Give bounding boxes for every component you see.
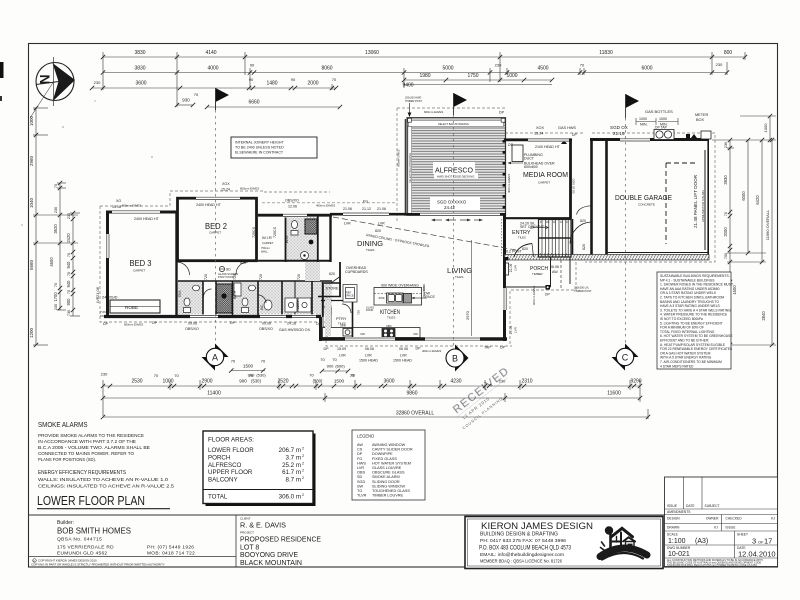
svg-text:XOX: XOX (222, 182, 230, 186)
svg-text:2310: 2310 (521, 379, 532, 385)
svg-text:BOB SMITH HOMES: BOB SMITH HOMES (57, 527, 131, 536)
svg-text:DOUBLE GARAGE: DOUBLE GARAGE (615, 193, 672, 202)
svg-text:400mm EAVES: 400mm EAVES (422, 349, 441, 353)
svg-text:STORE: STORE (326, 287, 339, 291)
svg-text:PROVIDE SMOKE ALARMS TO THE RE: PROVIDE SMOKE ALARMS TO THE RESIDENCE (38, 433, 144, 439)
svg-text:KJ: KJ (771, 517, 775, 521)
svg-text:R. & E. DAVIS: R. & E. DAVIS (240, 523, 286, 530)
svg-text:27.06: 27.06 (509, 326, 513, 335)
svg-text:OBS: OBS (357, 471, 365, 475)
svg-text:CARPET: CARPET (133, 269, 145, 273)
svg-text:09.06: 09.06 (262, 322, 271, 326)
svg-text:1750: 1750 (467, 73, 478, 79)
svg-text:P.O. BOX 483 COOLUM BEACH QLD: P.O. BOX 483 COOLUM BEACH QLD 4573 (479, 546, 572, 552)
svg-text:25.2 m: 25.2 m (282, 462, 301, 469)
svg-text:OBS/XO: OBS/XO (285, 199, 299, 203)
svg-text:900: 900 (327, 364, 334, 369)
svg-text:GAS BOTTLES: GAS BOTTLES (645, 109, 673, 114)
svg-text:11600: 11600 (607, 391, 621, 397)
svg-text:70: 70 (332, 77, 337, 82)
svg-text:4000: 4000 (207, 66, 218, 72)
svg-text:UBO: UBO (386, 324, 392, 328)
svg-text:600mm EAVES: 600mm EAVES (124, 323, 143, 327)
svg-text:1500 HEAD: 1500 HEAD (393, 359, 412, 363)
svg-text:TIMBER POST: TIMBER POST (574, 289, 592, 293)
svg-text:CHECKED: CHECKED (726, 517, 743, 521)
svg-text:6000: 6000 (641, 66, 652, 72)
svg-text:8.7 m: 8.7 m (286, 477, 301, 484)
svg-text:EMAIL: info@thebuildingdesigne: EMAIL: info@thebuildingdesigner.com (480, 552, 564, 558)
svg-text:15.18: 15.18 (112, 205, 121, 209)
svg-text:FIXED GLASS: FIXED GLASS (372, 457, 397, 461)
svg-text:DP: DP (324, 347, 330, 351)
svg-text:APML/MOTOR 0.8L/M3: APML/MOTOR 0.8L/M3 (701, 190, 705, 222)
svg-text:HOT WATER SYSTEM: HOT WATER SYSTEM (372, 461, 411, 465)
svg-text:SGD OXXXXO: SGD OXXXXO (437, 200, 467, 205)
svg-text:820: 820 (375, 229, 381, 233)
svg-text:2420: 2420 (66, 233, 71, 243)
svg-text:B: B (452, 354, 458, 364)
svg-text:4600: 4600 (49, 257, 54, 267)
svg-text:21.48 PANEL LIFT DOOR: 21.48 PANEL LIFT DOOR (693, 174, 698, 228)
svg-text:FG: FG (357, 457, 362, 461)
svg-text:17: 17 (764, 537, 772, 546)
svg-text:1500 HEAD: 1500 HEAD (359, 359, 378, 363)
svg-text:2100 HEAD HT: 2100 HEAD HT (535, 145, 561, 149)
svg-text:230: 230 (499, 379, 506, 384)
svg-text:600mm EAVES: 600mm EAVES (532, 286, 536, 305)
svg-text:LVR: LVR (365, 354, 372, 358)
svg-text:PH: (07) 5449 1926: PH: (07) 5449 1926 (147, 545, 194, 551)
svg-text:ROBE: ROBE (125, 305, 138, 310)
svg-text:DP: DP (416, 347, 422, 351)
svg-text:15.09: 15.09 (337, 347, 346, 351)
svg-text:INTERNAL JOINERY HEIGHT: INTERNAL JOINERY HEIGHT (235, 141, 284, 145)
svg-text:11830: 11830 (599, 50, 613, 56)
svg-text:SD: SD (226, 268, 231, 272)
svg-text:CONCRETE: CONCRETE (638, 203, 655, 207)
svg-text:70: 70 (67, 272, 71, 276)
svg-text:CLIENT: CLIENT (240, 517, 251, 521)
svg-text:5000: 5000 (442, 66, 453, 72)
svg-text:70: 70 (580, 63, 585, 68)
svg-text:DP: DP (545, 293, 550, 297)
svg-text:DP: DP (499, 111, 505, 115)
svg-text:400mm EAVES: 400mm EAVES (316, 204, 335, 208)
svg-text:(530): (530) (256, 373, 266, 378)
svg-text:W.I.R: W.I.R (262, 235, 272, 240)
svg-text:SW: SW (357, 484, 364, 488)
svg-text:2400 HEAD HT: 2400 HEAD HT (196, 203, 222, 207)
svg-text:12.06: 12.06 (288, 205, 297, 209)
svg-text:820: 820 (240, 261, 246, 265)
svg-text:CAVITY SLIDER DOOR: CAVITY SLIDER DOOR (372, 448, 413, 452)
svg-text:DUCT: DUCT (524, 157, 535, 161)
svg-text:TO BE 2400 UNLESS NOTED: TO BE 2400 UNLESS NOTED (235, 146, 284, 150)
svg-text:1500: 1500 (334, 379, 345, 384)
svg-text:DP: DP (230, 321, 236, 325)
svg-text:LVR: LVR (514, 264, 518, 270)
svg-text:2400 HEAD HT: 2400 HEAD HT (134, 217, 160, 221)
svg-text:2960: 2960 (29, 155, 34, 166)
svg-text:720: 720 (297, 274, 301, 280)
svg-text:SINK: SINK (379, 296, 385, 300)
svg-text:930: 930 (182, 98, 190, 103)
svg-text:3600: 3600 (383, 379, 394, 385)
svg-text:230: 230 (67, 213, 71, 219)
svg-text:730: 730 (67, 310, 71, 316)
svg-text:ELSEWHERE IN CONTRACT: ELSEWHERE IN CONTRACT (235, 151, 284, 155)
svg-text:ENERGY EFFICIENCY REQUIREMENTS: ENERGY EFFICIENCY REQUIREMENTS (38, 470, 127, 476)
svg-text:70: 70 (194, 92, 199, 97)
svg-text:TOTAL: TOTAL (208, 494, 228, 501)
svg-text:AMENDMENTS: AMENDMENTS (667, 510, 691, 514)
svg-text:3: 3 (752, 537, 756, 546)
svg-text:1040: 1040 (29, 197, 34, 208)
svg-text:600mm EAVES: 600mm EAVES (398, 149, 401, 167)
svg-text:TIMBER: TIMBER (532, 272, 543, 276)
svg-text:LOWER FLOOR PLAN: LOWER FLOOR PLAN (37, 494, 145, 508)
svg-text:21.12: 21.12 (362, 207, 371, 211)
svg-text:DWG NUMBER: DWG NUMBER (667, 546, 691, 550)
svg-text:SHEET: SHEET (737, 533, 748, 537)
svg-text:TAP: TAP (484, 346, 491, 350)
svg-text:3620: 3620 (53, 224, 58, 234)
svg-text:900: 900 (248, 373, 255, 378)
svg-text:TIMBER POST: TIMBER POST (405, 100, 422, 103)
svg-text:820: 820 (580, 219, 586, 223)
svg-text:70: 70 (724, 212, 728, 216)
svg-text:GAS HWS: GAS HWS (558, 126, 576, 130)
svg-text:LVR: LVR (339, 354, 346, 358)
svg-text:6660: 6660 (248, 100, 259, 106)
svg-text:DINING: DINING (357, 239, 383, 248)
svg-text:70: 70 (231, 359, 236, 364)
svg-text:ISSUE: ISSUE (667, 504, 678, 508)
svg-text:FG: FG (363, 200, 368, 204)
svg-text:SCALE: SCALE (667, 533, 679, 537)
svg-text:CEILINGS: INSULATED TO ACHEVE: CEILINGS: INSULATED TO ACHEVE AN R-VALUE… (38, 484, 174, 490)
svg-text:(A3): (A3) (695, 538, 708, 545)
svg-text:PIVOT DOOR: PIVOT DOOR (218, 275, 234, 279)
svg-text:BLACK MOUNTAIN: BLACK MOUNTAIN (240, 560, 302, 567)
svg-text:2: 2 (302, 461, 304, 465)
svg-text:LOT 8: LOT 8 (240, 545, 259, 552)
svg-text:3.7 m: 3.7 m (286, 454, 301, 461)
svg-text:AWNING WINDOW: AWNING WINDOW (372, 443, 406, 447)
svg-text:TILES: TILES (387, 316, 395, 320)
svg-text:DOWNPIPE: DOWNPIPE (372, 452, 393, 456)
svg-text:230: 230 (54, 207, 58, 213)
svg-text:700: 700 (724, 253, 728, 259)
svg-text:SELECT BALUSTRADING: SELECT BALUSTRADING (409, 153, 412, 183)
svg-text:KIERON JAMES DESIGN: KIERON JAMES DESIGN (481, 521, 593, 531)
svg-text:3600: 3600 (135, 81, 146, 87)
svg-text:1000: 1000 (659, 117, 667, 121)
svg-text:PLANS FOR POSITIONS (SD).: PLANS FOR POSITIONS (SD). (38, 457, 96, 463)
svg-text:06.06: 06.06 (550, 265, 559, 269)
svg-text:XOX: XOX (536, 126, 544, 130)
svg-text:LVR: LVR (400, 354, 407, 358)
svg-text:GAS HWS: GAS HWS (279, 328, 297, 332)
svg-text:90: 90 (291, 77, 296, 82)
svg-text:750mm: 750mm (261, 246, 270, 250)
svg-text:SMOKE ALARM: SMOKE ALARM (372, 475, 400, 479)
svg-text:230: 230 (94, 80, 101, 85)
svg-text:LEGEND: LEGEND (357, 434, 374, 439)
svg-text:900 WIDE OVERHANG: 900 WIDE OVERHANG (381, 283, 419, 287)
svg-text:1000: 1000 (506, 73, 517, 79)
svg-text:SGD OX: SGD OX (610, 125, 628, 130)
svg-text:720: 720 (357, 310, 361, 315)
svg-text:06 06: 06 06 (399, 347, 408, 351)
svg-text:DINK: DINK (422, 284, 426, 291)
svg-text:SINK: SINK (340, 324, 346, 328)
svg-text:LVR: LVR (357, 466, 364, 470)
svg-text:TAP: TAP (100, 314, 106, 318)
svg-text:24.18: 24.18 (287, 322, 296, 326)
svg-text:(530): (530) (251, 379, 261, 384)
svg-text:11400: 11400 (207, 391, 221, 397)
svg-text:6000: 6000 (741, 191, 746, 201)
svg-text:21.06: 21.06 (509, 264, 513, 273)
svg-text:SMOKE ALARMS: SMOKE ALARMS (38, 420, 88, 429)
svg-text:BUILDING DESIGN & DRAFTING: BUILDING DESIGN & DRAFTING (480, 532, 558, 538)
svg-text:70: 70 (54, 184, 58, 188)
svg-text:720CS: 720CS (252, 226, 256, 238)
svg-text:DP: DP (572, 133, 577, 137)
svg-text:2: 2 (302, 454, 304, 458)
svg-text:KJ: KJ (714, 526, 718, 530)
svg-text:AW.: AW. (552, 270, 558, 274)
svg-text:CARPET: CARPET (262, 241, 274, 245)
svg-text:13060: 13060 (365, 50, 379, 56)
svg-text:WALL: WALL (261, 250, 269, 254)
svg-text:1000: 1000 (29, 115, 34, 126)
svg-text:DP: DP (357, 452, 363, 456)
svg-text:70: 70 (309, 373, 314, 378)
svg-text:QBSA No. 044715: QBSA No. 044715 (57, 537, 102, 543)
svg-text:32860 OVERALL: 32860 OVERALL (396, 411, 435, 417)
svg-text:2: 2 (302, 476, 304, 480)
svg-text:206.7 m: 206.7 m (279, 447, 301, 454)
svg-text:LVR: LVR (514, 326, 518, 332)
svg-text:BALCONY: BALCONY (208, 477, 238, 484)
svg-text:LVR: LVR (96, 296, 100, 303)
svg-text:SD: SD (357, 475, 363, 479)
svg-text:200x200 LVL: 200x200 LVL (574, 286, 590, 290)
svg-text:3830: 3830 (134, 66, 145, 72)
svg-text:XO: XO (116, 199, 121, 203)
svg-text:3930: 3930 (723, 175, 728, 185)
svg-text:70: 70 (320, 357, 325, 362)
svg-text:6420: 6420 (755, 195, 760, 205)
svg-text:SLIDING WINDOW: SLIDING WINDOW (372, 484, 405, 488)
svg-text:LVR: LVR (378, 222, 385, 226)
svg-text:SGD OX: SGD OX (296, 328, 311, 332)
svg-text:TOUGHENED GLASS: TOUGHENED GLASS (372, 489, 410, 493)
svg-text:HWD SHOT EDGE DECKING: HWD SHOT EDGE DECKING (437, 175, 474, 179)
svg-text:B.C.A 2006 - VOLUME TWO. ALARM: B.C.A 2006 - VOLUME TWO. ALARMS SHALL BE (38, 445, 150, 451)
svg-text:DW: DW (414, 332, 419, 336)
svg-text:2: 2 (302, 493, 304, 497)
svg-text:CUPBOARDS: CUPBOARDS (345, 270, 368, 274)
svg-text:DW: DW (361, 332, 366, 336)
svg-text:70: 70 (350, 373, 355, 378)
svg-text:OBS/XO: OBS/XO (185, 327, 199, 331)
svg-text:175 VERRIERDALE RD: 175 VERRIERDALE RD (57, 545, 114, 551)
svg-text:DP: DP (508, 143, 514, 147)
svg-text:21.06: 21.06 (377, 207, 386, 211)
svg-text:PTRY: PTRY (336, 316, 347, 321)
svg-text:MOB: 0418 714 722: MOB: 0418 714 722 (147, 551, 195, 557)
svg-text:MIN.: MIN. (640, 123, 648, 127)
svg-text:2400S/D: 2400S/D (102, 295, 118, 300)
svg-text:4500: 4500 (537, 66, 548, 72)
svg-text:2000: 2000 (307, 81, 318, 87)
svg-text:26.2 POST: 26.2 POST (504, 250, 523, 254)
svg-text:WC: WC (260, 304, 264, 310)
svg-text:2900: 2900 (201, 379, 212, 385)
svg-text:SET OPENING: SET OPENING (520, 225, 545, 229)
svg-text:GLASS LOUVRE: GLASS LOUVRE (372, 466, 402, 470)
svg-text:TILES: TILES (518, 236, 526, 240)
svg-text:720CS: 720CS (273, 226, 277, 238)
svg-text:OWNER: OWNER (706, 517, 719, 521)
svg-text:CS: CS (357, 448, 363, 452)
svg-text:TG: TG (357, 489, 362, 493)
svg-text:940: 940 (66, 261, 71, 269)
svg-text:9860: 9860 (406, 391, 417, 397)
svg-text:820: 820 (582, 244, 586, 250)
svg-text:Builder:: Builder: (57, 520, 74, 526)
svg-text:09.20 SGD: 09.20 SGD (572, 178, 576, 194)
svg-text:09.06: 09.06 (188, 322, 197, 326)
svg-text:4230: 4230 (450, 379, 461, 385)
svg-text:STANDARD BUILDING REGULATIONS: STANDARD BUILDING REGULATIONS and TIMBER… (667, 564, 757, 567)
svg-text:(530): (530) (313, 379, 323, 384)
svg-text:1500: 1500 (243, 364, 254, 369)
svg-text:SUBJECT: SUBJECT (705, 504, 720, 508)
svg-text:LOWER FLOOR: LOWER FLOOR (208, 447, 254, 454)
svg-text:ALFRESCO: ALFRESCO (208, 462, 242, 469)
svg-text:WALLS: INSULATED TO ACHEVE AN: WALLS: INSULATED TO ACHEVE AN R-VALUE 1.… (38, 477, 168, 483)
svg-text:BED 3: BED 3 (130, 259, 153, 268)
svg-text:SPACE: SPACE (423, 295, 436, 299)
svg-text:DRAWN: DRAWN (667, 526, 680, 530)
svg-text:COPYING IN PART OR WHOLE IS ST: COPYING IN PART OR WHOLE IS STRICTLY PRO… (31, 563, 165, 567)
svg-text:TILES: TILES (366, 248, 374, 252)
svg-text:PH: 0417 633 275 FAX: 07 5448: PH: 0417 633 275 FAX: 07 5448 3996 (480, 538, 566, 544)
svg-text:230: 230 (724, 142, 728, 148)
svg-text:BOX: BOX (696, 118, 704, 122)
svg-text:70: 70 (174, 373, 179, 378)
svg-text:DP: DP (316, 322, 322, 326)
svg-text:61.7 m: 61.7 m (282, 469, 301, 476)
svg-text:SPACE: SPACE (345, 294, 354, 298)
svg-text:AW: AW (357, 443, 363, 447)
svg-text:06.06: 06.06 (365, 347, 374, 351)
svg-text:600mm EAVES: 600mm EAVES (122, 204, 141, 208)
svg-text:3830: 3830 (134, 50, 145, 56)
svg-text:1200: 1200 (29, 327, 34, 338)
svg-text:1700: 1700 (53, 292, 58, 302)
svg-text:METER: METER (695, 113, 709, 117)
svg-text:70: 70 (67, 253, 71, 257)
svg-text:70: 70 (67, 290, 71, 294)
svg-text:DESIGN: DESIGN (667, 517, 680, 521)
svg-text:21.15: 21.15 (613, 131, 625, 136)
svg-text:8060: 8060 (321, 66, 332, 72)
svg-text:1980: 1980 (419, 73, 430, 79)
svg-text:LDRY: LDRY (296, 300, 300, 309)
svg-text:15.24: 15.24 (221, 188, 230, 192)
svg-text:4 STAR MEPS RATED: 4 STAR MEPS RATED (660, 364, 694, 368)
svg-text:600x600: 600x600 (524, 165, 538, 169)
svg-text:12.04.2010: 12.04.2010 (738, 550, 776, 559)
svg-text:70: 70 (154, 373, 159, 378)
svg-text:EUMUNDI GLD 4562: EUMUNDI GLD 4562 (57, 551, 107, 557)
svg-text:DP TAP: DP TAP (655, 126, 668, 130)
svg-text:DP: DP (500, 346, 506, 350)
svg-text:FLOOR AREAS:: FLOOR AREAS: (208, 437, 254, 444)
svg-text:720: 720 (259, 274, 263, 280)
svg-text:2840: 2840 (761, 311, 766, 321)
svg-text:CARPET: CARPET (538, 181, 550, 185)
svg-text:21.06: 21.06 (343, 207, 352, 211)
svg-text:21.06: 21.06 (95, 286, 100, 297)
svg-text:C: C (622, 353, 629, 363)
svg-text:LVR: LVR (344, 222, 351, 226)
svg-text:DATE: DATE (686, 504, 695, 508)
svg-text:MEMBER BDAQ : QBSA LICENCE No.: MEMBER BDAQ : QBSA LICENCE No. 81726 (480, 559, 562, 564)
svg-text:OBSCURE GLASS: OBSCURE GLASS (372, 471, 405, 475)
svg-text:900: 900 (66, 298, 71, 306)
svg-text:5660: 5660 (29, 259, 34, 270)
svg-text:BATH: BATH (233, 290, 237, 299)
svg-text:ISSUE: ISSUE (726, 526, 737, 530)
svg-text:620: 620 (329, 272, 335, 276)
svg-text:ENS: ENS (285, 235, 289, 243)
svg-text:2970: 2970 (465, 310, 470, 320)
svg-text:DP: DP (103, 322, 109, 326)
svg-text:90: 90 (249, 77, 254, 82)
svg-text:BOOYONG DRIVE: BOOYONG DRIVE (240, 552, 298, 559)
svg-text:1000: 1000 (763, 123, 768, 133)
svg-text:1480: 1480 (266, 81, 277, 87)
svg-text:1000: 1000 (639, 117, 647, 121)
svg-text:UPPER FLOOR: UPPER FLOOR (208, 469, 253, 476)
svg-text:CARPET: CARPET (209, 231, 221, 235)
svg-text:IN ACCORDANCE WITH PART 3.7.2: IN ACCORDANCE WITH PART 3.7.2 OF THE (38, 439, 136, 445)
svg-text:600mm EAVES: 600mm EAVES (424, 110, 443, 114)
svg-text:TILES: TILES (455, 275, 463, 279)
svg-text:2000: 2000 (723, 227, 728, 237)
svg-text:70: 70 (332, 357, 337, 362)
svg-text:70: 70 (261, 359, 266, 364)
svg-text:SGD: SGD (357, 480, 365, 484)
svg-text:1000: 1000 (162, 379, 173, 385)
svg-text:820: 820 (522, 247, 528, 251)
svg-text:DOOR: DOOR (366, 309, 373, 312)
svg-text:90: 90 (250, 63, 255, 68)
svg-text:800: 800 (724, 50, 733, 56)
svg-text:PROJECT: PROJECT (240, 531, 254, 535)
svg-text:2: 2 (302, 469, 304, 473)
svg-text:CONNECTED TO MAINS POWER. REFE: CONNECTED TO MAINS POWER. REFER TO (38, 451, 134, 457)
svg-text:SLIDING DOOR: SLIDING DOOR (372, 480, 400, 484)
svg-text:OBS/XO: OBS/XO (259, 327, 273, 331)
